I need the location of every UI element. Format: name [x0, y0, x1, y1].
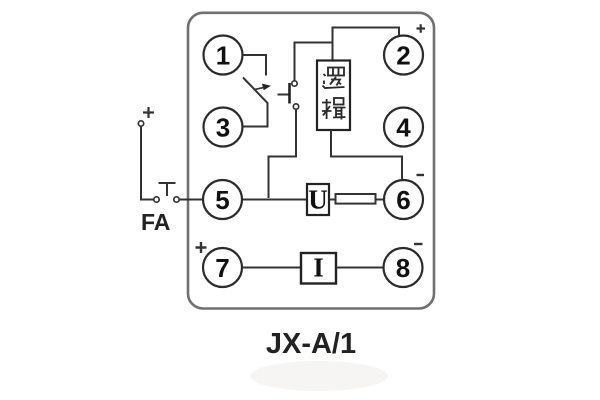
terminal box outline: [188, 13, 434, 309]
svg-text:U: U: [308, 185, 328, 215]
svg-text:FA: FA: [141, 209, 170, 235]
svg-text:JX-A/1: JX-A/1: [266, 328, 356, 360]
terminal 5: [203, 180, 242, 219]
wire resistor to terminal 6: [376, 199, 385, 201]
terminal 1: [204, 36, 243, 75]
plus sign at terminal 7: [196, 242, 207, 253]
actuation arrow: [254, 84, 272, 91]
svg-text:4: 4: [396, 112, 411, 142]
svg-text:1: 1: [216, 40, 230, 70]
U measuring element: [307, 184, 329, 215]
I measuring element: [301, 253, 336, 284]
svg-text:7: 7: [215, 253, 229, 283]
FA pushbutton actuator: [159, 183, 176, 196]
plus sign at terminal 2: [417, 24, 426, 32]
terminal 3: [204, 108, 243, 147]
terminal 8: [384, 248, 423, 287]
wire terminal 5 to U box: [242, 199, 307, 201]
terminal 4: [384, 108, 423, 147]
terminal 2: [384, 36, 423, 75]
wire FA source down and right: [141, 127, 154, 200]
wire from terminal 1 to fixed contact: [242, 55, 266, 76]
terminal 7: [203, 248, 242, 287]
wire upper contact to node: [295, 43, 333, 81]
svg-text:8: 8: [396, 253, 410, 283]
wire logic box bottom to terminal 6: [331, 130, 402, 180]
wire terminal 7 to I box: [243, 267, 301, 269]
contact bar: [288, 83, 291, 104]
minus sign at terminal 8: [414, 243, 423, 245]
svg-text:3: 3: [216, 112, 230, 142]
wire logic box top to terminal 2: [333, 28, 400, 61]
svg-text:I: I: [313, 253, 324, 283]
svg-text:2: 2: [396, 40, 410, 70]
svg-text:6: 6: [396, 185, 410, 215]
lower fixed contact dot: [293, 104, 298, 109]
wire U box to resistor: [329, 199, 336, 201]
resistor: [336, 194, 376, 204]
watermark blob: [250, 361, 388, 391]
wire lower contact to row 5 junction: [269, 110, 297, 199]
FA button contact dot right: [174, 197, 179, 202]
wire I box to terminal 8: [336, 267, 384, 269]
relay contact blade from terminal 3: [242, 78, 268, 127]
upper fixed contact dot: [292, 81, 297, 86]
logic block 逻辑: [317, 61, 350, 131]
character ji: [322, 98, 346, 120]
mechanical link stub: [278, 94, 290, 96]
FA source plus sign: [143, 107, 154, 118]
wire FA to terminal 5: [180, 199, 204, 201]
character luo: [323, 68, 345, 89]
FA source terminal dot: [138, 121, 143, 126]
terminal 6: [384, 180, 423, 219]
FA button contact dot left: [154, 197, 159, 202]
minus sign at terminal 6: [417, 174, 425, 176]
svg-text:5: 5: [215, 185, 229, 215]
